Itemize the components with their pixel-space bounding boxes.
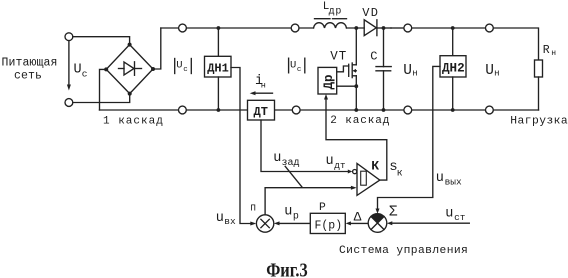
- svg-text:ДТ: ДТ: [254, 105, 268, 119]
- svg-text:1 каскад: 1 каскад: [103, 116, 164, 128]
- wire bridge left vertex down to DC bottom rail: [100, 69, 107, 110]
- wire coil to diode: [347, 27, 365, 29]
- svg-text:c: c: [297, 66, 302, 74]
- svg-text:U: U: [74, 63, 82, 78]
- svg-text:Р: Р: [319, 202, 326, 214]
- source lead: [355, 76, 357, 110]
- svg-text:к: к: [397, 169, 403, 180]
- svg-text:др: др: [329, 7, 343, 18]
- svg-text:Нагрузка: Нагрузка: [510, 116, 568, 128]
- bridge diode symbol: [119, 68, 125, 70]
- label |Uc| right: [289, 58, 305, 74]
- wire: [186, 109, 247, 111]
- svg-text:р: р: [293, 211, 299, 222]
- svg-text:u: u: [436, 171, 444, 186]
- svg-text:u: u: [216, 211, 224, 226]
- svg-text:u: u: [273, 151, 281, 166]
- svg-text:U: U: [290, 60, 296, 72]
- svg-text:VD: VD: [362, 6, 379, 20]
- wire multiplier P output to comparator K: [265, 188, 351, 215]
- gate bar: [348, 64, 350, 76]
- label u_зад with leader line: [273, 151, 299, 169]
- svg-text:VT: VT: [330, 50, 347, 64]
- terminal top rail 1: [179, 24, 187, 32]
- svg-text:П: П: [250, 203, 256, 214]
- label u_ст: [445, 206, 466, 223]
- label u_вых: [436, 171, 462, 188]
- svg-text:c: c: [82, 69, 88, 80]
- wire dT to terminal: [275, 109, 293, 111]
- bridge corner dots: [104, 43, 155, 96]
- label Uc with down arrow: [67, 42, 88, 91]
- svg-text:Фиг.3: Фиг.3: [266, 259, 308, 278]
- driver source reference: [337, 85, 357, 87]
- svg-text:дт: дт: [334, 160, 346, 171]
- resistor Rн: [535, 44, 557, 110]
- wire DN2 to sum node (u_вых): [378, 66, 441, 209]
- drain lead: [355, 28, 357, 65]
- wire VD to right: [391, 27, 404, 29]
- capacitor C: [370, 26, 391, 112]
- multiplier П: [250, 203, 273, 233]
- wire u_ст input to sum: [392, 222, 469, 224]
- comparator K (hysteresis): [357, 158, 380, 195]
- wire: [186, 27, 291, 29]
- terminal bottom rail 4: [486, 106, 494, 114]
- source tick: [352, 75, 356, 77]
- svg-text:u: u: [284, 205, 292, 220]
- wire F(p) to multiplier (u_р): [280, 222, 311, 224]
- label Uн right: [485, 63, 499, 79]
- svg-text:Питающая: Питающая: [2, 57, 58, 70]
- wire K output to driver (s_к): [326, 99, 387, 180]
- gate lead from driver: [337, 66, 349, 72]
- label Uн left: [403, 63, 417, 79]
- terminal input top-left: [65, 33, 73, 41]
- svg-text:н: н: [261, 80, 266, 90]
- top DC rail: [161, 27, 179, 29]
- body arrow: [354, 70, 356, 72]
- wire bridge right vertex up to DC top rail: [153, 28, 161, 69]
- wire: [412, 27, 486, 29]
- svg-text:u: u: [326, 154, 334, 169]
- wire bottom terminal to bridge bottom: [73, 94, 130, 103]
- svg-text:н: н: [412, 69, 417, 79]
- label Питающая сеть: [2, 57, 58, 83]
- svg-text:c: c: [183, 66, 188, 74]
- svg-text:Σ: Σ: [389, 204, 398, 220]
- wire: [300, 109, 404, 111]
- wire DT to comparator (u_дт): [261, 120, 348, 172]
- diode VD: [362, 6, 391, 36]
- wire: [299, 27, 314, 29]
- terminal input bottom-left: [65, 99, 73, 107]
- svg-text:К: К: [371, 158, 379, 173]
- terminal bottom rail 1: [179, 106, 187, 114]
- diode bridge VD1-VD4: [104, 43, 155, 96]
- terminal top rail 4: [486, 24, 494, 32]
- svg-text:2 каскад: 2 каскад: [330, 115, 390, 127]
- label s_к: [389, 159, 402, 180]
- label u_дт: [326, 154, 346, 171]
- label iн with left arrow: [250, 74, 273, 95]
- summing node Σ: [368, 204, 398, 232]
- transistor VT (MOSFET): [330, 26, 358, 112]
- svg-text:н: н: [551, 49, 556, 58]
- divider DN1: [205, 26, 232, 112]
- svg-text:U: U: [485, 63, 494, 79]
- divider DN2: [440, 26, 466, 112]
- wire to load corner: [493, 28, 538, 60]
- svg-text:н: н: [494, 69, 499, 79]
- svg-text:U: U: [403, 63, 412, 79]
- inverting input circle of K: [353, 170, 357, 174]
- current sensor DT: [248, 100, 275, 120]
- terminal top rail 3: [404, 24, 412, 32]
- terminal bottom rail 3: [404, 106, 412, 114]
- svg-text:u: u: [445, 206, 453, 221]
- wire sum to F(p) (Δ): [351, 222, 368, 224]
- channel bar: [351, 63, 353, 78]
- wire top terminal to bridge top: [73, 37, 130, 45]
- wire DN1 to multiplier P: [231, 68, 250, 224]
- svg-text:вх: вх: [224, 216, 236, 227]
- svg-text:ст: ст: [454, 212, 466, 223]
- svg-text:U: U: [176, 60, 182, 72]
- svg-text:зад: зад: [282, 158, 300, 169]
- svg-text:C: C: [370, 50, 377, 64]
- svg-text:Др: Др: [322, 74, 336, 89]
- wire: [412, 109, 486, 111]
- label u_р: [284, 205, 299, 223]
- svg-text:ДН2: ДН2: [442, 61, 465, 75]
- driver Др box: [318, 67, 337, 94]
- bottom DC rail: [100, 109, 179, 111]
- svg-text:Система управления: Система управления: [339, 245, 468, 257]
- label |Uc| left: [175, 59, 192, 75]
- label u_вх: [216, 211, 236, 227]
- terminal bottom rail 2: [292, 106, 300, 114]
- svg-text:Δ: Δ: [354, 210, 362, 225]
- svg-text:вых: вых: [445, 177, 462, 188]
- svg-text:сеть: сеть: [14, 70, 42, 83]
- svg-text:ДН1: ДН1: [207, 62, 229, 76]
- regulator F(p) box: [310, 202, 345, 234]
- svg-text:F(p): F(p): [315, 220, 343, 233]
- inductor Lдр: [314, 1, 347, 28]
- svg-text:R: R: [543, 44, 550, 57]
- wire: [493, 109, 538, 111]
- terminal top rail 2: [291, 24, 299, 32]
